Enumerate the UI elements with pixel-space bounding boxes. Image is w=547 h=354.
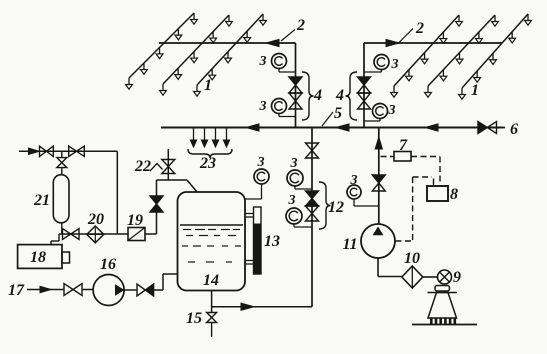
- wire gauge stub b1 top: [279, 69, 296, 73]
- label 16: [100, 256, 116, 273]
- svg-text:4: 4: [335, 87, 344, 104]
- wire dosing line: [59, 233, 128, 235]
- label 3 (branch2 lower): [388, 103, 396, 118]
- outlet arrows 23: [190, 128, 229, 147]
- wire supply drop: [116, 151, 118, 234]
- cylinder 21: [53, 175, 69, 223]
- wire dashed box8 stub: [433, 179, 435, 187]
- svg-text:15: 15: [186, 310, 202, 327]
- label 7: [399, 137, 408, 154]
- wire gauge stub b2 bottom: [364, 119, 380, 122]
- leader 22 zigzag: [150, 164, 163, 172]
- svg-text:14: 14: [203, 272, 219, 289]
- valve on injection riser top: [306, 143, 319, 158]
- wire jog to tank 18: [51, 234, 59, 245]
- svg-text:3: 3: [290, 156, 298, 171]
- svg-text:17: 17: [8, 282, 25, 299]
- wire line 17: [27, 289, 64, 291]
- wire to ejector 19: [145, 233, 157, 235]
- wire supply line top-left: [19, 150, 117, 152]
- svg-text:2: 2: [296, 17, 305, 34]
- valve 4b (branch 2): [358, 93, 371, 109]
- sprinklers on lateral R3: [459, 14, 532, 99]
- wire feed line 2 right: [364, 42, 502, 44]
- valve 12b: [306, 206, 319, 221]
- arrow main line mid: [336, 124, 349, 131]
- sprinklers on lateral R1: [391, 15, 463, 97]
- label 5: [334, 105, 342, 122]
- brace for group 12: [319, 182, 331, 229]
- svg-text:3: 3: [257, 155, 265, 170]
- label 3 (branch2 upper): [391, 57, 399, 72]
- wire gauge stub 12 upper: [295, 186, 312, 189]
- label 3 (branch1 upper): [259, 54, 267, 69]
- label 2 (left): [296, 17, 305, 34]
- wire pump riser: [378, 128, 380, 225]
- gauge 3 (branch 2 upper): [374, 55, 389, 70]
- brace for 23: [188, 149, 232, 158]
- valve supply 1: [40, 146, 54, 156]
- valve on line 17: [64, 284, 82, 296]
- svg-text:13: 13: [264, 233, 280, 250]
- arrow supply inlet: [29, 148, 40, 154]
- leader for label 2 left: [281, 30, 295, 42]
- svg-text:5: 5: [334, 105, 342, 122]
- drain valve 15: [207, 313, 217, 323]
- label 3 (branch1 lower): [259, 99, 267, 114]
- label 3 (12 lower): [288, 193, 296, 208]
- label 22: [134, 158, 151, 175]
- wire sprinkler lateral R1: [394, 15, 459, 86]
- arrow up on pump riser: [375, 137, 382, 149]
- wire dashed corner down to 8: [439, 157, 441, 187]
- level gauge nipples: [245, 214, 254, 265]
- wire sprinkler lateral L3: [197, 14, 263, 85]
- valve above cylinder 21: [57, 158, 67, 168]
- svg-text:3: 3: [259, 54, 267, 69]
- svg-text:18: 18: [30, 249, 46, 266]
- gauge 3 (tank): [254, 169, 269, 184]
- wire sprinkler lateral L1: [129, 13, 194, 78]
- wire cyl21 neck: [61, 168, 63, 175]
- wire sprinkler lateral L2: [163, 15, 229, 84]
- pump 16: [93, 275, 124, 306]
- leader for label 5: [322, 112, 333, 126]
- intake bell body: [428, 293, 457, 319]
- control box 8: [427, 186, 448, 201]
- wire tee to tank top: [157, 180, 198, 192]
- arrow main line left: [246, 124, 259, 131]
- wire stub to label 6: [497, 127, 506, 129]
- arrow on feed line 2 left: [266, 39, 279, 46]
- label 1 (right field): [471, 82, 479, 99]
- svg-text:3: 3: [288, 193, 296, 208]
- sprinklers on lateral L1: [126, 13, 198, 89]
- filter 20: [87, 226, 104, 243]
- wire dashed down to pump: [412, 177, 414, 241]
- wire gauge stub b1 bottom: [279, 114, 296, 117]
- wire feed line 2 left: [159, 42, 296, 44]
- wire sprinkler lateral R2: [428, 15, 495, 86]
- wire cyl21 stub top: [61, 151, 63, 157]
- wire check valve drop: [156, 180, 158, 234]
- valve 4a (branch 1, check): [289, 77, 302, 93]
- svg-text:7: 7: [399, 137, 408, 154]
- label 3 (pump riser): [350, 173, 358, 188]
- label 10: [404, 250, 420, 267]
- svg-text:3: 3: [391, 57, 399, 72]
- svg-text:1: 1: [471, 82, 479, 99]
- label 3 (tank): [257, 155, 265, 170]
- valve on dosing line: [63, 229, 80, 240]
- label 17: [8, 282, 25, 299]
- wire tank to riser: [212, 306, 312, 308]
- wire to pump 16: [82, 289, 94, 291]
- svg-text:3: 3: [388, 103, 396, 118]
- wire branch 1 riser: [295, 43, 297, 128]
- label 13: [264, 233, 280, 250]
- svg-text:12: 12: [328, 199, 344, 216]
- svg-text:20: 20: [87, 211, 104, 228]
- svg-text:19: 19: [127, 212, 143, 229]
- label 2 (right): [415, 20, 424, 37]
- gauge 3 (branch 1 lower): [272, 99, 287, 114]
- tank 14: [178, 192, 246, 291]
- water level line: [180, 224, 243, 226]
- label 18: [30, 249, 46, 266]
- label 11: [342, 236, 357, 253]
- label 6: [510, 121, 518, 138]
- label 20: [87, 211, 104, 228]
- wire dashed 8 to left: [413, 176, 432, 178]
- arrow tank to riser: [241, 303, 254, 310]
- label 4 (right): [335, 87, 344, 104]
- leader for label 2 right: [399, 29, 413, 43]
- svg-text:8: 8: [450, 186, 458, 203]
- gauge 3 (12 upper): [287, 170, 303, 186]
- wire gauge stub b2 top: [364, 70, 382, 73]
- wire drain out: [211, 323, 213, 338]
- wire sprinkler lateral R3: [462, 14, 528, 88]
- wire gauge stub 12 lower: [294, 224, 312, 227]
- wire cyl21 stub bottom: [61, 223, 63, 234]
- label 1 (left field): [204, 77, 212, 94]
- wire into tank: [154, 274, 178, 290]
- gauge 3 (pump riser): [347, 185, 361, 199]
- level gauge 13 tube: [254, 207, 262, 274]
- valve 6: [478, 122, 497, 134]
- valve supply 2: [69, 146, 85, 156]
- arrow main line right: [425, 124, 438, 131]
- svg-text:2: 2: [415, 20, 424, 37]
- svg-text:22: 22: [134, 158, 151, 175]
- water dashes: [182, 230, 241, 263]
- svg-text:16: 16: [100, 256, 116, 273]
- svg-text:1: 1: [204, 77, 212, 94]
- wire dashed riser to 7: [381, 156, 395, 158]
- label 21: [33, 192, 50, 209]
- intake bell lid: [435, 286, 450, 292]
- wire pump suction: [378, 258, 402, 277]
- wire dashed 7 to corner: [411, 156, 440, 158]
- label 3 (12 upper): [290, 156, 298, 171]
- wire main line 5: [161, 127, 503, 129]
- valve 12a (filled): [306, 191, 319, 206]
- svg-text:21: 21: [33, 192, 50, 209]
- svg-text:3: 3: [259, 99, 267, 114]
- wire tank gauge stub: [245, 184, 262, 199]
- ejector 19: [128, 228, 145, 241]
- arrow on feed line 2 right: [386, 39, 399, 46]
- svg-text:6: 6: [510, 121, 518, 138]
- label 23: [199, 155, 216, 172]
- gauge 3 (branch 2 lower): [373, 104, 388, 119]
- brace for group 4 right: [346, 72, 358, 120]
- intake bell top line: [428, 292, 458, 294]
- sprinklers on lateral L3: [194, 14, 267, 96]
- valve 4a (branch 2, check): [358, 77, 371, 93]
- label 9: [453, 269, 461, 286]
- filter 10: [402, 266, 423, 288]
- pump 11: [361, 224, 395, 258]
- wire branch 2 riser: [363, 43, 365, 128]
- wire relief riser: [167, 149, 169, 180]
- check valve (to tank): [150, 196, 163, 212]
- intake screen teeth: [430, 318, 456, 324]
- ground line: [412, 324, 477, 326]
- arrow line 17: [40, 286, 51, 292]
- label 12: [328, 199, 344, 216]
- label 4 (left): [313, 87, 322, 104]
- svg-text:9: 9: [453, 269, 461, 286]
- gauge 3 (branch 1 upper): [272, 54, 287, 69]
- label 19: [127, 212, 143, 229]
- label 15: [186, 310, 202, 327]
- wire tank bottom drop: [211, 291, 213, 313]
- wire dashed to pump 11: [396, 240, 413, 242]
- valve 4b (branch 1): [289, 93, 302, 109]
- label 8: [450, 186, 458, 203]
- wire gauge stub riser: [354, 199, 379, 206]
- svg-text:11: 11: [342, 236, 357, 253]
- svg-text:10: 10: [404, 250, 420, 267]
- svg-text:3: 3: [350, 173, 358, 188]
- sprinklers on lateral R2: [425, 15, 499, 97]
- wire pump16 out: [124, 289, 137, 291]
- svg-text:4: 4: [313, 87, 322, 104]
- brace for group 4 left: [302, 72, 314, 120]
- gauge 3 (12 lower): [286, 208, 302, 224]
- tank 18: [18, 245, 70, 269]
- check valve pump16: [137, 284, 154, 296]
- valve on pump riser: [372, 175, 385, 191]
- relief valve 22: [162, 160, 175, 174]
- svg-text:23: 23: [199, 155, 216, 172]
- foot valve 9: [438, 270, 452, 284]
- label 14: [203, 272, 219, 289]
- wire injection riser: [311, 128, 313, 307]
- wire filter to strainer: [423, 276, 438, 278]
- orifice 7: [394, 152, 411, 162]
- sprinklers on lateral L2: [160, 15, 233, 95]
